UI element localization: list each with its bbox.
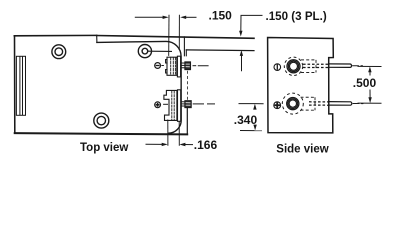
svg-text:.166: .166 <box>194 138 218 152</box>
svg-text:Side view: Side view <box>276 143 328 155</box>
svg-text:.150: .150 <box>209 9 233 23</box>
svg-text:.500: .500 <box>353 76 377 90</box>
svg-text:.340: .340 <box>234 113 258 127</box>
svg-text:.150 (3 PL.): .150 (3 PL.) <box>266 10 327 23</box>
svg-text:Top view: Top view <box>80 142 128 154</box>
